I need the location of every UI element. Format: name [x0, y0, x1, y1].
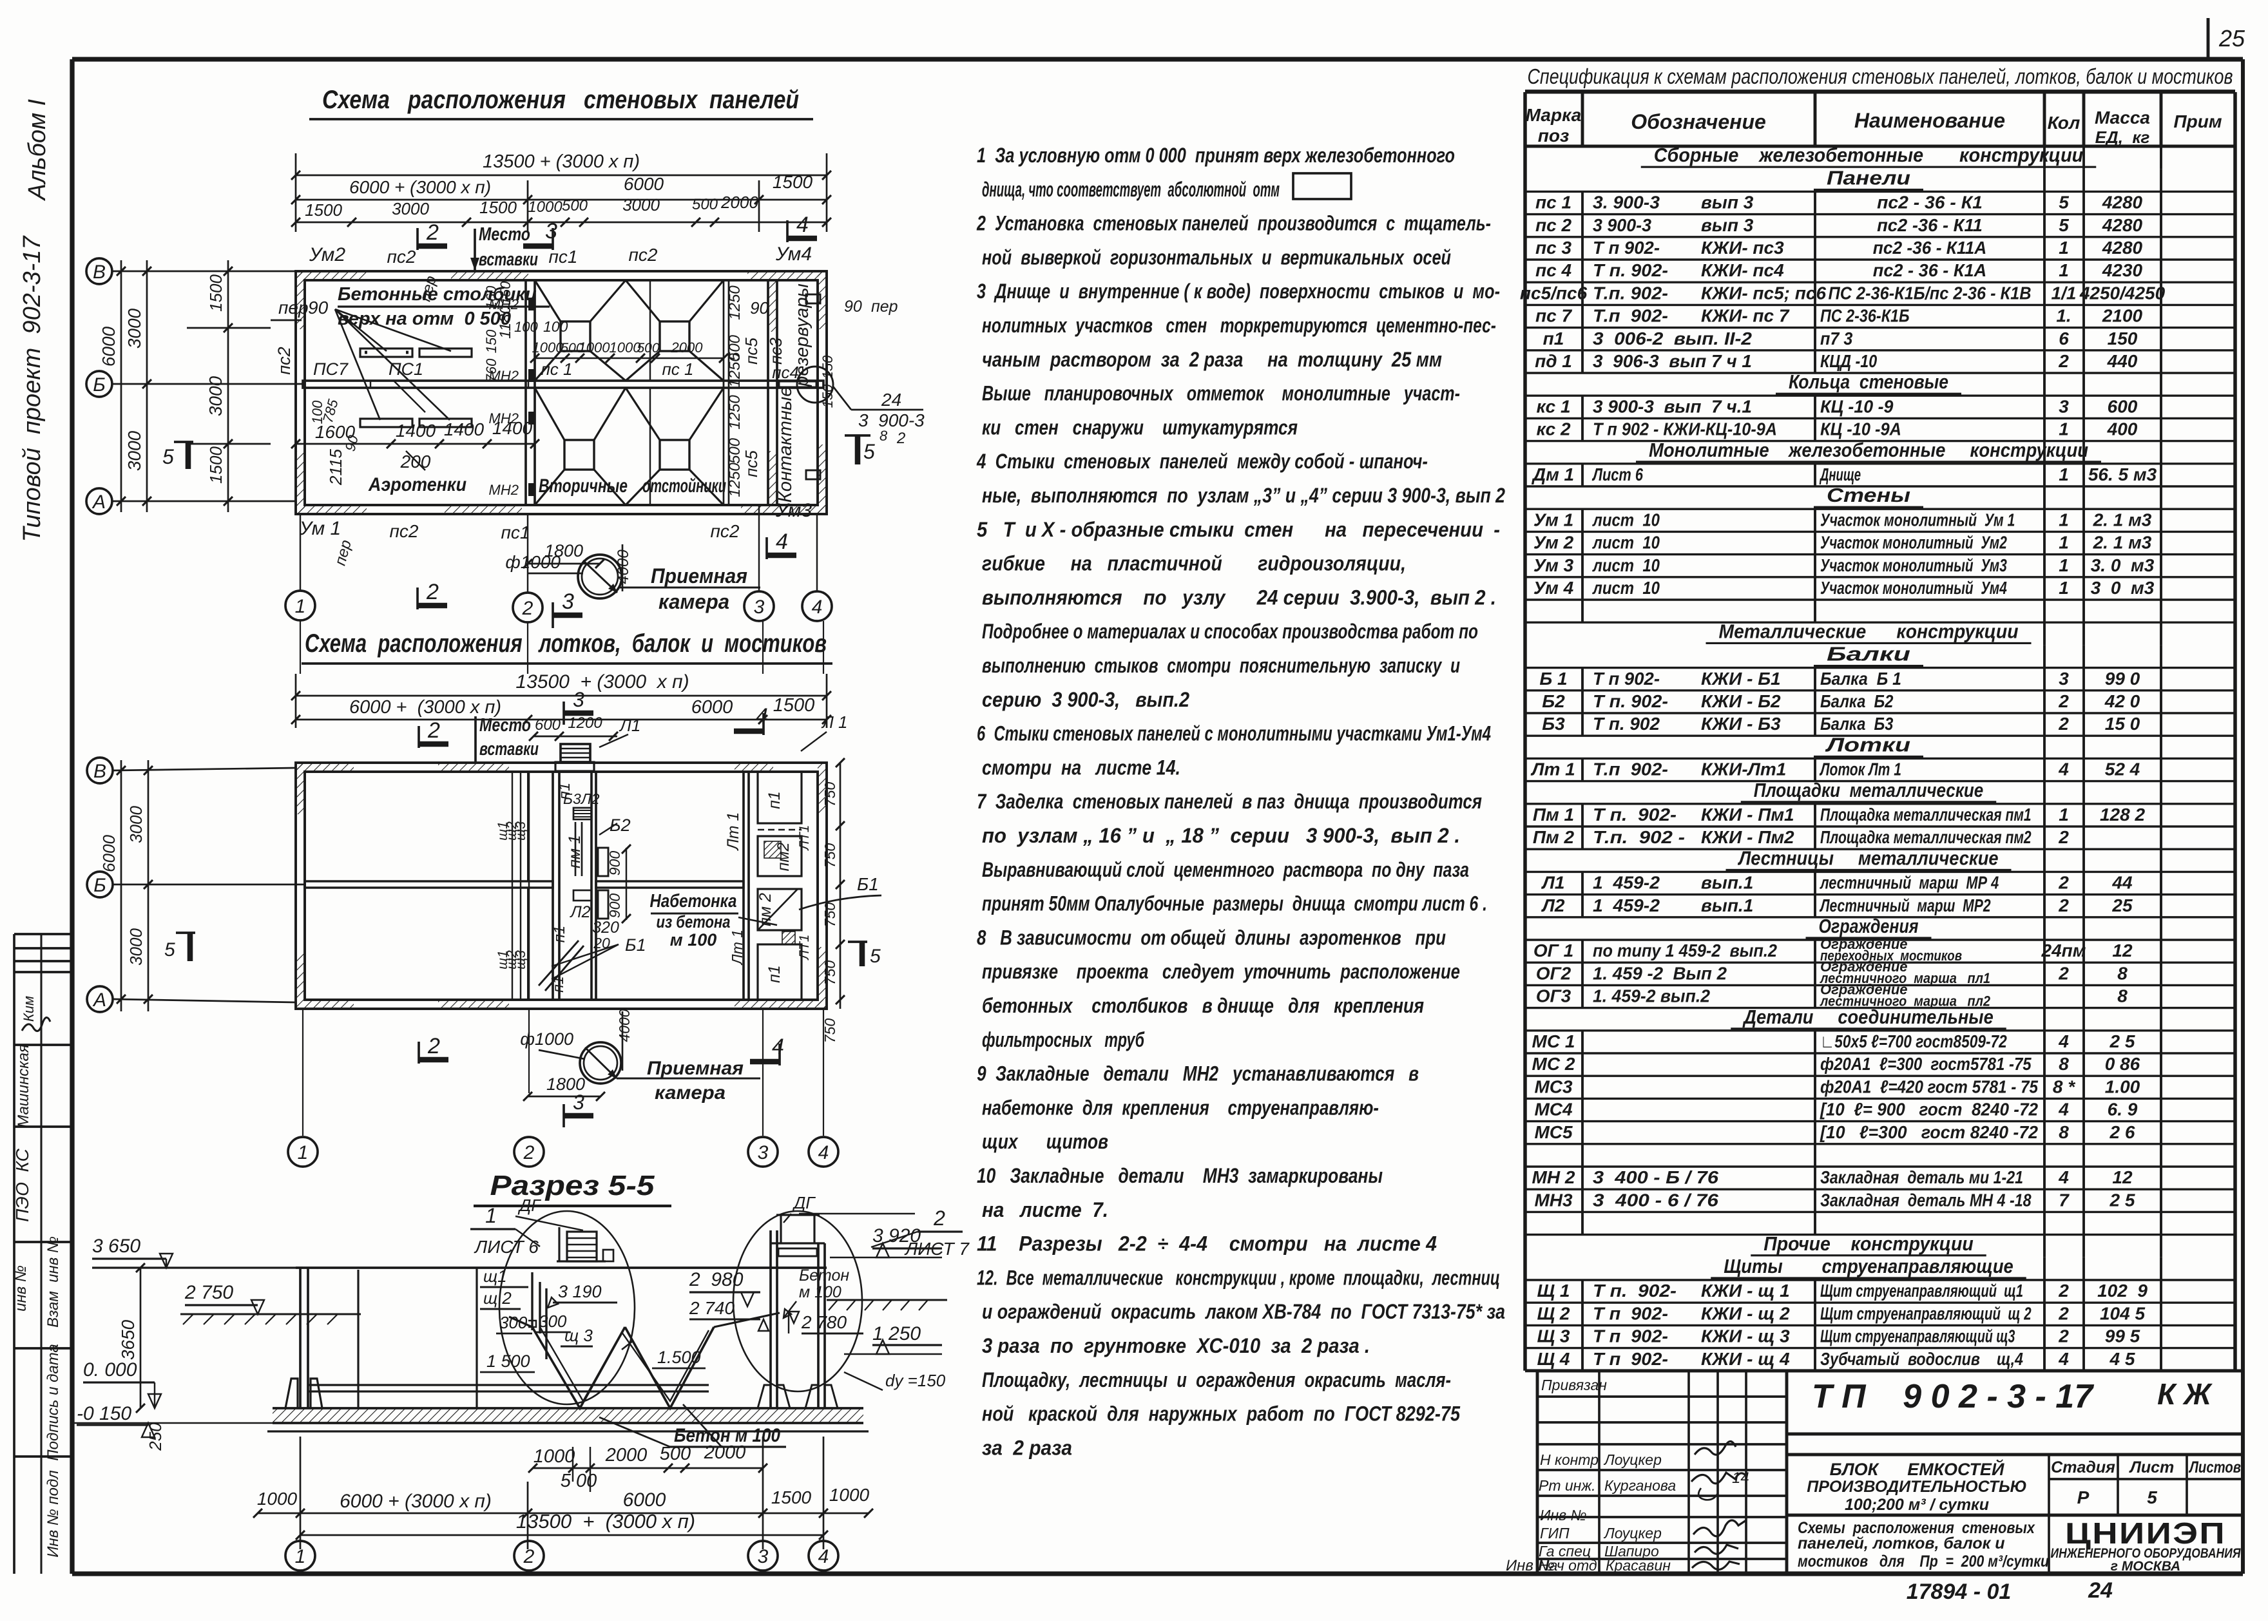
svg-text:В: В [93, 262, 106, 283]
svg-text:лестничный марш МР 4: лестничный марш МР 4 [1819, 873, 1999, 893]
svg-text:Лт 1: Лт 1 [729, 930, 745, 966]
svg-text:Альбом I: Альбом I [24, 99, 51, 201]
svg-text:Бетон: Бетон [799, 1266, 849, 1285]
svg-text:102 9: 102 9 [2097, 1281, 2148, 1301]
svg-text:3 920: 3 920 [872, 1225, 921, 1247]
svg-text:лист 10: лист 10 [1591, 555, 1660, 575]
section bottom grid circles [285, 1541, 315, 1571]
svg-text:КЖИ- пс5; пс6: КЖИ- пс5; пс6 [1701, 283, 1826, 303]
svg-text:Б: Б [93, 374, 106, 396]
svg-text:Красавин: Красавин [1606, 1557, 1671, 1574]
svg-text:750: 750 [822, 782, 838, 807]
svg-text:фильтросных труб: фильтросных труб [982, 1028, 1145, 1051]
svg-text:КЖИ- пс4: КЖИ- пс4 [1701, 260, 1784, 280]
svg-text:щ 2: щ 2 [483, 1288, 512, 1308]
svg-text:смотри на листе 14.: смотри на листе 14. [982, 756, 1180, 779]
svg-text:5: 5 [162, 445, 174, 468]
svg-text:Ум 2: Ум 2 [1533, 533, 1574, 553]
svg-text:2: 2 [2058, 873, 2069, 893]
svg-text:Контактные: Контактные [775, 387, 796, 503]
svg-text:Закладная деталь ми 1-21: Закладная деталь ми 1-21 [1820, 1167, 2023, 1187]
plan2 outer wall rectangle [296, 763, 827, 1009]
svg-text:1500: 1500 [206, 274, 226, 312]
section V hoppers [532, 1327, 625, 1408]
svg-text:300: 300 [539, 1312, 567, 1331]
svg-text:24: 24 [881, 390, 901, 410]
svg-text:пс2 - 36 - К1: пс2 - 36 - К1 [1877, 193, 1983, 213]
section right platform top [771, 1242, 825, 1244]
plan2 section mark 2 above [418, 726, 420, 748]
svg-text:камера: камера [655, 1082, 726, 1103]
section shch plates [531, 1272, 533, 1330]
svg-text:Кольца стеновые: Кольца стеновые [1789, 370, 1948, 393]
svg-text:Аэротенки: Аэротенки [368, 474, 466, 495]
svg-text:ЛИСТ 6: ЛИСТ 6 [474, 1237, 539, 1257]
svg-text:2 750: 2 750 [184, 1282, 233, 1303]
svg-text:750: 750 [822, 843, 838, 868]
svg-text:В: В [93, 761, 106, 782]
svg-text:ЦНИИЭП: ЦНИИЭП [2065, 1516, 2226, 1550]
plan2 central insert channel walls [552, 772, 554, 1000]
svg-text:1: 1 [2059, 805, 2069, 825]
section bottom dim 13500 [300, 1534, 823, 1536]
section bottom dims row2 main [300, 1437, 302, 1549]
svg-text:Пм 1: Пм 1 [1533, 805, 1574, 825]
svg-text:5: 5 [863, 440, 875, 463]
svg-text:панелей, лотков, балок и: панелей, лотков, балок и [1798, 1534, 2005, 1552]
plan1 section mark 2 top [416, 228, 419, 250]
svg-text:4: 4 [2058, 1349, 2069, 1369]
svg-text:ДГ: ДГ [792, 1193, 816, 1212]
svg-text:ки стен снаружи штукату: ки стен снаружи штукатурятся [982, 416, 1298, 439]
svg-text:5: 5 [2147, 1487, 2157, 1507]
svg-text:2: 2 [2058, 1326, 2069, 1346]
svg-text:Дм 1: Дм 1 [1532, 464, 1574, 484]
svg-text:1800: 1800 [544, 541, 583, 560]
plan2 dim row2 [296, 719, 827, 721]
svg-text:24пм: 24пм [2041, 941, 2086, 960]
svg-text:2000: 2000 [704, 1442, 746, 1463]
svg-text:2 5: 2 5 [2109, 1190, 2135, 1210]
svg-text:1: 1 [295, 1546, 306, 1567]
svg-text:2000: 2000 [605, 1445, 648, 1466]
svg-text:3: 3 [758, 1142, 769, 1163]
svg-text:ЕД, кг: ЕД, кг [2095, 128, 2150, 147]
svg-text:Листов: Листов [2188, 1458, 2241, 1476]
svg-text:Лотки: Лотки [1825, 733, 1910, 756]
svg-text:[10 ℓ= 900 гост 8240 -72: [10 ℓ= 900 гост 8240 -72 [1820, 1100, 2038, 1120]
svg-text:пс2 -36 - К11А: пс2 -36 - К11А [1873, 238, 1986, 258]
svg-text:4: 4 [756, 704, 768, 729]
svg-text:3 650: 3 650 [92, 1236, 140, 1257]
svg-text:вып.1: вып.1 [1701, 873, 1753, 893]
svg-text:набетонке для крепления с: набетонке для крепления струенаправляю- [982, 1096, 1379, 1119]
svg-text:7 Заделка стеновых панелей: 7 Заделка стеновых панелей в паз днища п… [977, 790, 1482, 813]
svg-text:1: 1 [2059, 464, 2069, 484]
svg-text:6000: 6000 [623, 1489, 666, 1511]
title block object name cell [1787, 1453, 2243, 1457]
svg-text:1180: 1180 [497, 305, 514, 339]
plan2 left dims [120, 760, 122, 1011]
svg-text:пс5: пс5 [742, 450, 761, 477]
plan1 section flag 5 left [186, 442, 191, 469]
svg-text:-0 150: -0 150 [77, 1403, 131, 1424]
svg-text:1250: 1250 [726, 285, 744, 320]
svg-text:750: 750 [822, 960, 838, 986]
svg-text:Л2: Л2 [580, 790, 600, 807]
svg-text:Марка: Марка [1526, 105, 1581, 125]
svg-text:пс2 - 36 - К1А: пс2 - 36 - К1А [1873, 260, 1986, 280]
svg-text:400: 400 [2107, 419, 2138, 439]
svg-text:ПС1: ПС1 [389, 359, 423, 379]
svg-text:нолитных участков стен то: нолитных участков стен торкретируются це… [982, 314, 1496, 337]
svg-text:500: 500 [692, 196, 718, 213]
svg-text:1: 1 [2059, 260, 2069, 280]
svg-text:Щиты струенаправляющие: Щиты струенаправляющие [1724, 1255, 2013, 1277]
svg-text:щ 3: щ 3 [564, 1326, 593, 1345]
svg-text:2: 2 [933, 1207, 945, 1230]
plan1 dimension line row2 [296, 199, 827, 201]
svg-text:КЖИ - щ 1: КЖИ - щ 1 [1701, 1281, 1790, 1301]
svg-text:56. 5 м3: 56. 5 м3 [2088, 464, 2157, 484]
svg-text:2 6: 2 6 [2109, 1122, 2135, 1142]
plan1 middle wall horizontal bar [303, 381, 823, 388]
plan1 left dim vertical 6000 [120, 260, 122, 512]
svg-text:1250: 1250 [726, 463, 744, 497]
svg-text:2: 2 [426, 220, 439, 245]
svg-text:Балка Б3: Балка Б3 [1820, 714, 1894, 734]
svg-text:1: 1 [2059, 578, 2069, 598]
section balloon callout left [499, 1211, 635, 1404]
svg-text:3000: 3000 [622, 195, 660, 215]
svg-text:6. 9: 6. 9 [2108, 1100, 2138, 1120]
svg-text:4250/4250: 4250/4250 [2079, 283, 2166, 303]
svg-text:ПС 2-36-К1Б/пс 2-36 - К1В: ПС 2-36-К1Б/пс 2-36 - К1В [1829, 283, 2032, 303]
svg-text:4: 4 [2058, 759, 2069, 779]
section dim 3650 rotated [140, 1268, 142, 1408]
svg-text:Прим: Прим [2173, 111, 2222, 131]
svg-text:ОГ3: ОГ3 [1536, 986, 1571, 1006]
svg-text:8: 8 [2059, 1122, 2069, 1142]
svg-text:1: 1 [2059, 419, 2069, 439]
svg-text:Т п 902-: Т п 902- [1593, 238, 1660, 258]
svg-text:760: 760 [483, 358, 499, 382]
svg-text:2100: 2100 [2102, 306, 2143, 326]
plan2 section mark 4 bottom [778, 1044, 781, 1065]
svg-text:11 Разрезы 2-2 ÷ 4-4: 11 Разрезы 2-2 ÷ 4-4 смотри на листе 4 [977, 1232, 1437, 1256]
svg-text:Приемная: Приемная [647, 1058, 744, 1079]
svg-text:6: 6 [2059, 329, 2069, 349]
svg-text:пс1: пс1 [549, 247, 578, 267]
svg-text:150: 150 [497, 281, 514, 305]
svg-text:Стены: Стены [1827, 484, 1910, 506]
svg-text:4 5: 4 5 [2109, 1349, 2135, 1369]
svg-text:3000: 3000 [124, 308, 144, 349]
svg-text:100: 100 [543, 318, 568, 335]
svg-text:6000 + (3000 х п): 6000 + (3000 х п) [349, 697, 501, 718]
plan1 section mark 2 bottom [416, 588, 419, 609]
plan1 outer wall rectangle [296, 271, 827, 514]
section left wall [299, 1268, 302, 1408]
plan1 dim vertical 1500-3000-1500 [227, 260, 229, 512]
svg-text:Спецификация к схемам располож: Спецификация к схемам расположения стено… [1528, 64, 2233, 88]
svg-text:6000 + (3000 х п): 6000 + (3000 х п) [349, 177, 491, 197]
svg-text:Место: Место [479, 715, 531, 736]
svg-text:3000: 3000 [392, 199, 429, 218]
svg-text:Ум 1: Ум 1 [299, 518, 341, 539]
svg-text:42 0: 42 0 [2104, 691, 2140, 711]
svg-text:вставки: вставки [479, 739, 539, 759]
svg-text:Выравнивающий слой цементного: Выравнивающий слой цементного раствора п… [982, 858, 1469, 881]
svg-text:2 Установка стеновых панелей: 2 Установка стеновых панелей производитс… [976, 212, 1491, 235]
svg-text:500: 500 [562, 197, 588, 215]
svg-text:300: 300 [499, 1313, 528, 1332]
svg-text:3: 3 [573, 1091, 584, 1114]
svg-text:8: 8 [2059, 1054, 2069, 1074]
plan1 MH2 marks on center wall [528, 298, 535, 310]
section ground line left [92, 1266, 303, 1268]
svg-text:принят 50мм Опалубочные разме: принят 50мм Опалубочные размеры днища см… [982, 892, 1487, 915]
svg-text:Т.п 902-: Т.п 902- [1593, 759, 1668, 779]
svg-text:Металлические конструкции: Металлические конструкции [1719, 620, 2019, 642]
svg-text:3 0 м3: 3 0 м3 [2091, 578, 2155, 598]
svg-text:КЖИ - Пм1: КЖИ - Пм1 [1701, 805, 1794, 825]
svg-text:ф1000: ф1000 [520, 1029, 573, 1049]
svg-text:БЛОК ЕМКОСТЕЙ: БЛОК ЕМКОСТЕЙ [1830, 1458, 2004, 1479]
plan1 grid row lines [112, 271, 296, 272]
plan2 grid circles left [87, 758, 113, 783]
svg-text:Детали соединительные: Детали соединительные [1742, 1006, 1994, 1028]
svg-text:Щ 3: Щ 3 [1537, 1326, 1570, 1346]
svg-text:пс 1: пс 1 [662, 359, 694, 379]
svg-text:2 780: 2 780 [801, 1312, 847, 1332]
svg-text:Н контр: Н контр [1540, 1451, 1599, 1468]
svg-text:150: 150 [820, 355, 836, 379]
svg-text:Лестницы металлические: Лестницы металлические [1738, 846, 1999, 869]
svg-text:Б 1: Б 1 [1539, 669, 1567, 689]
sidebar stamp labels [12, 996, 62, 1558]
svg-text:ЛТ1: ЛТ1 [797, 935, 812, 961]
svg-text:100: 100 [514, 319, 538, 335]
svg-text:1500: 1500 [479, 198, 517, 217]
svg-text:0 86: 0 86 [2105, 1054, 2140, 1074]
svg-text:0. 000: 0. 000 [83, 1359, 137, 1380]
svg-text:Т п. 902: Т п. 902 [1593, 714, 1660, 734]
title block outer lines [1537, 1370, 2243, 1373]
svg-text:1000: 1000 [829, 1485, 870, 1505]
svg-text:1250: 1250 [726, 353, 744, 388]
svg-text:бетонных столбиков в днищ: бетонных столбиков в днище для крепления [982, 994, 1424, 1017]
page number 25 top right [2208, 18, 2245, 59]
svg-text:17894 - 01: 17894 - 01 [1907, 1580, 2012, 1604]
svg-text:ные, выполняются по узлам „: ные, выполняются по узлам „3” и „4” сери… [982, 484, 1505, 507]
svg-text:Днище: Днище [1820, 464, 1861, 484]
section left wall base footing [285, 1379, 298, 1408]
svg-text:Б3: Б3 [563, 790, 581, 807]
svg-text:20: 20 [593, 935, 610, 951]
svg-text:Т.п. 902 -: Т.п. 902 - [1593, 827, 1685, 847]
svg-text:4: 4 [812, 597, 823, 618]
svg-text:2. 1 м3: 2. 1 м3 [2093, 510, 2152, 530]
svg-text:КЖИ - щ 3: КЖИ - щ 3 [1701, 1326, 1790, 1346]
svg-text:Участок монолитный Ум3: Участок монолитный Ум3 [1820, 555, 2007, 575]
section bottom dims row1 [533, 1467, 763, 1469]
svg-text:Закладная деталь МН 4 -18: Закладная деталь МН 4 -18 [1820, 1190, 2032, 1210]
svg-text:1: 1 [2059, 555, 2069, 575]
svg-text:Ум2: Ум2 [309, 244, 345, 265]
svg-text:90: 90 [844, 298, 862, 316]
svg-text:ПЭО КС: ПЭО КС [12, 1148, 32, 1222]
svg-text:5: 5 [870, 946, 881, 967]
svg-text:2: 2 [2058, 351, 2069, 371]
svg-text:1: 1 [2059, 510, 2069, 530]
plan1 dim row 1600 1400 [296, 443, 535, 445]
svg-text:1: 1 [295, 596, 306, 617]
svg-text:Т п 902-: Т п 902- [1593, 1303, 1668, 1323]
svg-text:КЖИ - Б2: КЖИ - Б2 [1701, 691, 1781, 711]
svg-text:6000: 6000 [691, 697, 733, 718]
plan1 wall hatching corners [296, 271, 367, 280]
svg-text:8: 8 [2117, 986, 2128, 1006]
svg-text:вып 3: вып 3 [1701, 215, 1754, 235]
plan1 section flag 5 right [855, 435, 861, 464]
svg-text:8: 8 [2117, 963, 2128, 983]
svg-text:4280: 4280 [2102, 238, 2143, 258]
title block code ТП 902-3-17 КЖ [1787, 1433, 2243, 1436]
section right chamber walls [769, 1230, 772, 1408]
plan2 section flag 5 left [187, 933, 193, 961]
svg-text:Л 1: Л 1 [821, 712, 848, 732]
plan2 column axis thin lines [527, 772, 528, 881]
svg-text:5: 5 [2059, 193, 2069, 213]
svg-text:Л2: Л2 [569, 903, 590, 921]
svg-text:пс2: пс2 [274, 347, 294, 374]
svg-text:пс4: пс4 [772, 363, 799, 382]
spec table outer border [1525, 91, 2235, 94]
svg-text:1/1: 1/1 [2052, 283, 2077, 303]
notes text column [976, 144, 1505, 1459]
section tank floor band [273, 1407, 863, 1409]
svg-text:К Ж: К Ж [2157, 1377, 2213, 1411]
plan1 top dimension line 13500 [296, 175, 827, 177]
svg-text:МН 2: МН 2 [1532, 1167, 1575, 1187]
svg-text:выполнению стыков смотри по: выполнению стыков смотри пояснительную з… [982, 654, 1460, 677]
svg-text:на листе 7.: на листе 7. [982, 1198, 1108, 1221]
svg-text:КЖИ- пс3: КЖИ- пс3 [1701, 238, 1784, 258]
svg-text:ГИП: ГИП [1540, 1525, 1570, 1542]
svg-text:ОГ 1: ОГ 1 [1533, 941, 1573, 960]
svg-text:2 5: 2 5 [2109, 1031, 2135, 1051]
svg-text:320: 320 [592, 919, 619, 937]
svg-text:Лоуцкер: Лоуцкер [1603, 1525, 1662, 1542]
plan1 inner wall vertical col2 [524, 280, 527, 505]
svg-text:Наименование: Наименование [1854, 109, 2005, 132]
svg-text:п7 3: п7 3 [1820, 329, 1853, 349]
plan1 dim 1800 4000 [528, 563, 600, 565]
svg-text:440: 440 [2107, 351, 2138, 371]
svg-text:кс 1: кс 1 [1536, 396, 1570, 416]
svg-text:КЖИ - щ 2: КЖИ - щ 2 [1701, 1303, 1790, 1323]
svg-text:13500 + (3000 х п): 13500 + (3000 х п) [516, 1510, 695, 1533]
svg-text:3000: 3000 [126, 806, 146, 843]
svg-text:1: 1 [485, 1204, 497, 1227]
svg-text:3 900-3: 3 900-3 [858, 410, 925, 430]
svg-text:Типовой проект 902-3-17: Типовой проект 902-3-17 [19, 235, 46, 542]
svg-text:Зубчатый водослив щ,4: Зубчатый водослив щ,4 [1820, 1349, 2023, 1369]
svg-text:150: 150 [820, 384, 836, 408]
svg-text:КЦ -10 -9: КЦ -10 -9 [1820, 396, 1894, 416]
svg-text:1500: 1500 [773, 695, 815, 716]
svg-text:Лоток Лт 1: Лоток Лт 1 [1819, 759, 1901, 779]
svg-text:99 0: 99 0 [2105, 669, 2140, 689]
svg-text:1500: 1500 [206, 446, 226, 484]
svg-text:Щит струенаправляющий щ3: Щит струенаправляющий щ3 [1820, 1326, 2015, 1346]
svg-text:кс 2: кс 2 [1536, 419, 1571, 439]
svg-text:Пм 2: Пм 2 [1533, 827, 1575, 847]
svg-text:гибкие на пластичной: гибкие на пластичной гидроизоляции, [982, 552, 1406, 575]
svg-text:Площадку, лестницы и огражд: Площадку, лестницы и ограждения окрасить… [982, 1368, 1451, 1391]
svg-text:ЛТ1: ЛТ1 [797, 825, 812, 852]
svg-text:3 900-3: 3 900-3 [1593, 215, 1651, 235]
section balloon callout right [733, 1211, 862, 1391]
svg-text:1250: 1250 [726, 395, 744, 430]
svg-text:А: А [91, 492, 106, 513]
svg-text:12: 12 [2112, 1167, 2133, 1187]
svg-text:4: 4 [818, 1142, 829, 1163]
svg-text:1000: 1000 [579, 339, 611, 356]
svg-text:МН3: МН3 [1534, 1190, 1573, 1210]
svg-text:Б3: Б3 [1542, 714, 1565, 734]
svg-text:2000: 2000 [720, 193, 758, 212]
svg-text:Ум 4: Ум 4 [1533, 578, 1574, 598]
svg-text:8 В зависимости от общей д: 8 В зависимости от общей длины аэротенко… [977, 926, 1446, 949]
svg-text:КЦД -10: КЦД -10 [1820, 351, 1878, 371]
svg-text:3: 3 [2059, 669, 2069, 689]
svg-text:ПС7: ПС7 [313, 359, 349, 379]
svg-text:пс 2: пс 2 [1535, 215, 1571, 235]
svg-text:по узлам „ 16 ” и „ 18 ” се: по узлам „ 16 ” и „ 18 ” серии 3 900-3, … [982, 824, 1460, 847]
svg-text:пер: пер [871, 298, 898, 316]
svg-text:4000: 4000 [615, 549, 632, 584]
svg-text:щ3: щ3 [514, 821, 528, 841]
svg-text:ПРОИЗВОДИТЕЛЬНОСТЬЮ: ПРОИЗВОДИТЕЛЬНОСТЬЮ [1807, 1478, 2026, 1496]
svg-text:Б2: Б2 [610, 816, 631, 835]
svg-text:Взам инв №: Взам инв № [44, 1236, 62, 1328]
svg-text:500: 500 [726, 437, 744, 464]
svg-text:выполняются по узлу: выполняются по узлу 24 серии 3.900-3, вы… [982, 586, 1496, 609]
section ground hatch left [180, 1314, 361, 1315]
svg-text:1: 1 [298, 1142, 309, 1163]
svg-text:1400: 1400 [396, 421, 436, 441]
svg-text:Т п 902-: Т п 902- [1593, 1326, 1668, 1346]
svg-text:пс 3: пс 3 [1535, 238, 1571, 258]
svg-text:Прочие конструкции: Прочие конструкции [1763, 1232, 1974, 1255]
svg-text:камера: камера [658, 590, 729, 613]
plan1 inner wall vertical col3 [767, 280, 769, 505]
svg-text:3: 3 [573, 688, 584, 711]
plan2 shch lines left of channel [512, 772, 513, 1000]
plan1 concrete posts bars upper [360, 349, 412, 357]
svg-text:600: 600 [535, 716, 561, 734]
svg-text:3. 0 м3: 3. 0 м3 [2091, 555, 2155, 575]
svg-text:2115: 2115 [326, 449, 345, 486]
svg-text:мостиков для Пр = 200 м: мостиков для Пр = 200 м³/сутки [1798, 1552, 2049, 1571]
svg-text:2: 2 [427, 1034, 440, 1058]
svg-text:7: 7 [2059, 1190, 2070, 1210]
svg-text:Л1: Л1 [619, 716, 640, 735]
svg-text:2: 2 [2058, 1303, 2069, 1323]
svg-text:лист 10: лист 10 [1591, 578, 1660, 598]
